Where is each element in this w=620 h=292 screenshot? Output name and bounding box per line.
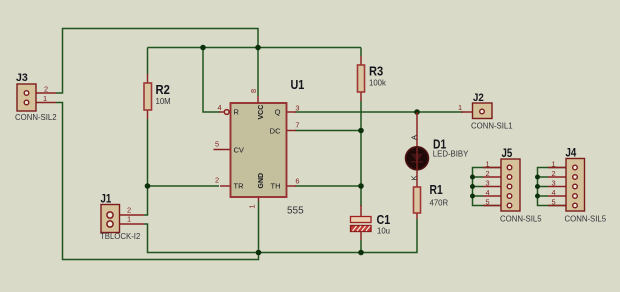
svg-text:5: 5 [485, 198, 489, 207]
wire DC pin7 to R3 node [295, 130, 361, 132]
svg-text:1: 1 [43, 94, 47, 103]
svg-text:TBLOCK-I2: TBLOCK-I2 [100, 232, 140, 241]
U1 pin 4 R stub [219, 111, 224, 113]
op-amp U1 555 timer [214, 77, 305, 217]
wire J5 common vertical [473, 168, 502, 206]
svg-text:3: 3 [551, 179, 555, 188]
svg-text:8: 8 [249, 89, 258, 93]
svg-text:100k: 100k [369, 79, 386, 88]
U1 pin 7 DC stub [287, 130, 297, 132]
svg-text:5: 5 [551, 198, 555, 207]
svg-text:4: 4 [551, 188, 555, 197]
capacitor C1 [351, 205, 391, 240]
svg-text:4: 4 [485, 188, 489, 197]
svg-text:1: 1 [458, 103, 462, 112]
svg-text:5: 5 [215, 140, 219, 149]
J1 pin 2 stub [120, 214, 145, 216]
wire R2 bottom to TR junction [147, 119, 149, 186]
junction node J4 pin4 [535, 194, 540, 199]
svg-text:1: 1 [485, 160, 489, 169]
svg-text:GND: GND [258, 173, 265, 189]
svg-text:J5: J5 [502, 148, 513, 160]
junction node J4 pin3 [535, 184, 540, 189]
resistor R1 [414, 170, 449, 219]
U1 pin 3 Q stub [287, 111, 297, 113]
J4 body [566, 159, 585, 212]
U1 pin 1 GND stub [258, 197, 260, 201]
C1 top lead [360, 205, 362, 217]
svg-text:CV: CV [234, 146, 244, 155]
svg-text:2: 2 [127, 206, 131, 215]
connector J1 TBLOCK-I2 [100, 194, 144, 242]
connector J2 CONN-SIL1 [458, 92, 513, 131]
junction node J5 pin2 [470, 175, 475, 180]
C1 bottom lead [360, 231, 362, 240]
R3 top lead [360, 56, 362, 66]
wire C1 bottom to ground rail [360, 240, 362, 253]
connector J3 CONN-SIL2 [15, 72, 57, 122]
svg-text:R3: R3 [369, 64, 383, 79]
junction node VCC rail at pin8 [255, 45, 261, 51]
svg-text:CONN-SIL2: CONN-SIL2 [15, 113, 57, 122]
wire net VCC: J3 pin2 up and across top [56, 29, 258, 94]
svg-text:Q: Q [275, 108, 281, 117]
svg-text:10M: 10M [156, 97, 171, 106]
wire ground rail to C1 and R1 [259, 219, 418, 253]
svg-text:6: 6 [295, 177, 299, 186]
R2 top lead [147, 74, 149, 84]
svg-text:K: K [410, 175, 419, 180]
D1 anode lead [416, 112, 418, 148]
C1 top plate [351, 217, 372, 223]
LED D1 [406, 112, 470, 181]
wire J3 pin1 down along left and bottom [56, 103, 259, 260]
junction node ground at U1 GND [256, 250, 262, 256]
wire reset pin4 from rail [203, 48, 220, 113]
wire J4 common vertical [538, 168, 567, 206]
J4 pin stubs 1-5 [548, 167, 566, 169]
wire R3 top lead [360, 48, 362, 57]
wire R2 top lead [147, 48, 149, 75]
U1 pin 6 TH stub [287, 185, 297, 187]
J3 body [17, 84, 36, 111]
svg-text:U1: U1 [291, 77, 305, 92]
connector J5 CONN-SIL5 [483, 148, 542, 224]
junction node DC / R3 [358, 128, 364, 134]
svg-text:4: 4 [217, 103, 221, 112]
junction node J5 pin3 [470, 184, 475, 189]
U1 pin 2 TR stub [220, 185, 231, 187]
junction node VCC rail at pin4 riser [200, 45, 206, 51]
J3 pin 1 stub [36, 102, 56, 104]
wire GND pin1 of U1 down [258, 201, 260, 253]
svg-text:1: 1 [127, 215, 131, 224]
J1 body [101, 205, 120, 233]
U1 reset inversion bubble [224, 110, 229, 115]
U1 pin 8 VCC stub [257, 96, 259, 103]
U1 body [231, 103, 287, 197]
svg-text:1: 1 [551, 160, 555, 169]
svg-text:CONN-SIL5: CONN-SIL5 [500, 215, 542, 224]
R2 body [144, 83, 152, 110]
J5 pin stubs 1-5 [483, 167, 501, 169]
J3 pin 2 stub [36, 92, 56, 94]
junction node J4 pin2 [535, 175, 540, 180]
svg-text:2: 2 [215, 176, 219, 185]
svg-text:2: 2 [44, 85, 48, 94]
wire J1 pin1 down to ground rail [144, 224, 259, 253]
R3 body [358, 65, 365, 92]
wire TR pin2 [148, 185, 220, 187]
J5 body [501, 159, 520, 211]
svg-text:TR: TR [234, 182, 245, 191]
svg-text:J2: J2 [473, 92, 484, 104]
svg-text:J1: J1 [101, 194, 112, 206]
junction node TH / C1 [358, 183, 364, 189]
svg-text:J4: J4 [566, 148, 577, 160]
D1 LED body [406, 147, 429, 170]
svg-text:2: 2 [551, 169, 555, 178]
wire Q pin3 to J2 [295, 111, 463, 113]
resistor R2 [144, 74, 171, 119]
svg-text:DC: DC [270, 127, 281, 136]
svg-text:A: A [410, 135, 419, 140]
connector J4 CONN-SIL5 [548, 148, 607, 224]
svg-text:C1: C1 [377, 212, 391, 227]
svg-text:3: 3 [295, 103, 299, 112]
svg-text:555: 555 [287, 206, 304, 217]
wire TH pin6 to C1 node [295, 185, 361, 187]
svg-text:3: 3 [485, 179, 489, 188]
junction node J5 pin4 [470, 194, 475, 199]
C1 bottom plate hatched [351, 226, 372, 232]
wire VCC rail [148, 47, 362, 49]
junction node TR / R2 / J1.2 [145, 183, 151, 189]
svg-text:CONN-SIL1: CONN-SIL1 [471, 122, 513, 131]
R1 body [414, 187, 421, 213]
junction node Q / D1 anode [414, 109, 420, 115]
R1 bottom lead [416, 213, 418, 219]
svg-text:R: R [234, 108, 240, 117]
J2 pin 1 stub [461, 111, 473, 113]
wire R3 bottom vertical through DC and TH to C1 [360, 101, 362, 206]
J1 pin 1 stub [120, 223, 145, 225]
svg-text:7: 7 [295, 121, 299, 130]
svg-text:R2: R2 [156, 82, 170, 97]
svg-text:470R: 470R [430, 199, 449, 208]
svg-text:VCC: VCC [258, 105, 265, 120]
svg-text:J3: J3 [16, 72, 28, 84]
junction node ground at C1 [358, 250, 364, 256]
resistor R3 [358, 56, 387, 101]
R2 bottom lead [147, 110, 149, 119]
svg-text:LED-BIBY: LED-BIBY [433, 150, 469, 159]
wire VCC pin8 stub [257, 48, 259, 97]
wire J1 pin2 up to TR junction [144, 186, 148, 215]
svg-text:R1: R1 [430, 183, 443, 197]
svg-text:TH: TH [271, 182, 281, 191]
svg-text:2: 2 [485, 169, 489, 178]
svg-text:10u: 10u [377, 227, 390, 236]
J2 body [473, 103, 493, 119]
R3 bottom lead [360, 91, 362, 101]
svg-text:1: 1 [248, 204, 257, 208]
U1 pin 5 CV stub [214, 149, 231, 151]
svg-text:CONN-SIL5: CONN-SIL5 [565, 215, 607, 224]
R1 top lead [416, 170, 418, 188]
